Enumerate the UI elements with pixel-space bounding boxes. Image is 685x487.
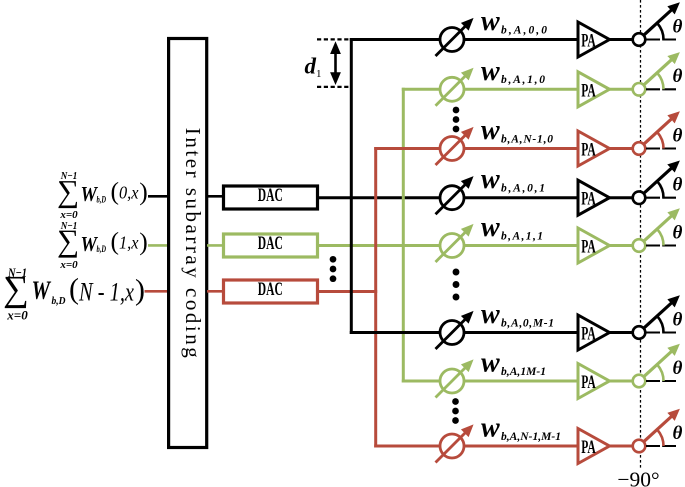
angle arc row 2 [657,73,663,89]
svg-text:θ: θ [673,175,683,196]
wire PA6 to antenna node 6 [610,331,634,334]
wire coder to DAC1 [207,195,224,198]
svg-text:W: W [32,276,52,305]
svg-text:PA: PA [581,325,596,345]
svg-text:(: ( [111,226,120,255]
svg-text:DAC: DAC [258,186,283,206]
phase shifter PS7 (green) [436,367,467,398]
svg-text:b,A,0,M-1: b,A,0,M-1 [501,317,554,329]
svg-text:PA: PA [581,438,596,458]
svg-text:θ: θ [673,309,683,330]
ellipsis dots rows 2-3 [453,107,460,133]
wire bus to phase shifter row 3 [374,147,441,150]
label w b,A,1,0 row 2 [481,56,545,87]
svg-text:PA: PA [581,32,596,52]
svg-text:PA: PA [581,238,596,258]
svg-text:b,A,0,1: b,A,0,1 [501,183,545,195]
label w b,A,0,M-1 row 6 [481,299,554,330]
angle arc row 6 [657,316,663,332]
svg-text:b,D: b,D [97,244,107,254]
svg-text:∑: ∑ [57,173,79,208]
node formula-2 digital weight term [57,220,148,271]
svg-text:W: W [81,182,99,206]
svg-text:): ) [139,227,148,256]
wire bus to phase shifter row 6 [350,331,441,334]
DAC3 (red) [224,280,318,303]
label w b,A,N-1,M-1 row 8 [481,413,561,444]
wire bus to phase shifter row 7 [402,380,441,383]
svg-text:w: w [481,413,500,444]
svg-text:∑: ∑ [3,268,29,308]
phase shifter PS2 (green) [436,75,467,106]
wire PS7 to PA7 [463,380,578,383]
svg-text:PA: PA [581,141,596,161]
antenna node 1 (black) [633,33,646,46]
amplifier PA7 (green) [578,364,610,399]
dashed spacing line top [317,38,350,40]
antenna node 4 (black) [633,191,646,204]
amplifier PA3 (red) [578,131,610,166]
reference line row 3 [646,147,676,149]
beam arrow row 3 [644,118,673,144]
svg-text:1: 1 [316,68,322,80]
double arrow d1 [330,41,341,85]
amplifier PA4 (black) [578,180,610,215]
phase shifter PS5 (green) [436,231,467,262]
amplifier PA8 (red) [578,429,610,464]
svg-text:b,A,N-1,0: b,A,N-1,0 [501,133,553,145]
node formula-3 digital weight term [3,265,145,323]
amplifier PA1 (black) [578,22,610,57]
antenna node 6 (black) [633,326,646,339]
svg-text:x=0: x=0 [6,308,28,323]
svg-text:W: W [81,232,99,256]
svg-text:DAC: DAC [258,234,283,254]
phase shifter PS6 (black) [436,318,467,349]
dashed spacing line bottom [317,86,350,88]
beam arrow row 4 [644,167,673,193]
svg-text:w: w [481,348,500,379]
wire coder to DAC3 [207,290,224,293]
ellipsis dots between DAC2 and DAC3 [330,256,337,282]
amplifier PA2 (green) [578,72,610,107]
svg-text:w: w [481,56,500,87]
wire coder to DAC2 [207,244,224,247]
block U1 inter subarray coding [169,39,207,448]
label w b,A,1,1 row 5 [481,212,543,243]
antenna node 3 (red) [633,142,646,155]
svg-text:θ: θ [673,222,683,243]
svg-text:(: ( [69,273,79,306]
wire bus to phase shifter row 1 [350,38,441,41]
wire PA8 to antenna node 8 [610,445,634,448]
svg-text:N - 1,x: N - 1,x [78,278,134,307]
svg-text:b,A,0,0: b,A,0,0 [501,24,547,36]
svg-text:(: ( [111,177,120,206]
svg-text:PA: PA [581,81,596,101]
svg-text:x=0: x=0 [59,259,78,271]
wire DAC3 output to red bus [316,290,377,293]
svg-text:0,x: 0,x [119,183,139,203]
reference line row 7 [646,380,676,382]
wire PA7 to antenna node 7 [610,380,634,383]
wire DAC2 output to bus and PS5 [316,244,441,247]
phase shifter PS1 (black) [436,25,467,56]
wire formula-2 to coder [148,244,167,247]
wire PA5 to antenna node 5 [610,244,634,247]
svg-text:1,x: 1,x [119,232,139,252]
wire PA2 to antenna node 2 [610,88,634,91]
wire green bus vertical [402,88,405,383]
svg-text:−90°: −90° [617,468,659,487]
label w b,A,0,1 row 4 [481,164,545,195]
svg-text:w: w [481,164,500,195]
wire PS3 to PA3 [463,147,578,150]
phase shifter PS8 (red) [436,432,467,463]
wire PS8 to PA8 [463,445,578,448]
svg-text:θ: θ [673,125,683,146]
svg-text:PA: PA [581,190,596,210]
label w b,A,0,0 row 1 [481,6,547,37]
angle arc row 3 [657,132,663,148]
angle arc row 4 [657,181,663,197]
svg-text:w: w [481,299,500,330]
wire PS4 to PA4 [463,196,578,199]
svg-text:b,A,1,0: b,A,1,0 [501,74,545,86]
reference line row 8 [646,445,676,447]
svg-text:b,A,1M-1: b,A,1M-1 [501,366,546,378]
reference line row 1 [646,38,676,40]
svg-text:PA: PA [581,373,596,393]
svg-text:θ: θ [673,358,683,379]
wire PA3 to antenna node 3 [610,147,634,150]
antenna node 2 (green) [633,83,646,96]
wire PS5 to PA5 [463,244,578,247]
beam arrow row 5 [644,215,673,241]
angle arc row 5 [657,229,663,245]
wire PS6 to PA6 [463,331,578,334]
reference line row 2 [646,88,676,90]
phase shifter PS3 (red) [436,134,467,165]
angle arc row 8 [657,430,663,446]
node formula-1 digital weight term [57,170,148,221]
svg-text:b,A,N-1,M-1: b,A,N-1,M-1 [501,431,561,443]
wire black bus vertical [350,38,353,334]
reference line row 5 [646,244,676,246]
antenna node 7 (green) [633,375,646,388]
wire PS2 to PA2 [463,88,578,91]
wire PA4 to antenna node 4 [610,196,634,199]
svg-text:θ: θ [673,66,683,87]
DAC1 (black) [224,186,318,209]
svg-text:∑: ∑ [57,223,79,258]
wire formula-3 to coder [145,290,168,293]
label w b,A,1M-1 row 7 [481,348,546,379]
ellipsis dots rows 5-6 [453,269,460,301]
wire red bus vertical [374,147,377,448]
svg-text:θ: θ [673,423,683,444]
svg-text:d: d [305,54,317,79]
wire formula-1 to coder [148,195,167,198]
DAC2 (green) [224,234,318,257]
phase shifter PS4 (black) [436,183,467,214]
svg-text:w: w [481,212,500,243]
svg-text:b,D: b,D [97,194,107,204]
svg-text:): ) [135,274,145,307]
svg-text:b,D: b,D [52,295,66,307]
wire DAC1 output to bus and PS4 [316,196,441,199]
svg-text:θ: θ [673,16,683,37]
svg-text:b,A,1,1: b,A,1,1 [501,230,543,242]
wire PS1 to PA1 [463,38,578,41]
svg-text:DAC: DAC [258,280,283,300]
beam arrow row 6 [644,302,673,328]
beam arrow row 1 [644,9,673,35]
wire bus to phase shifter row 8 [374,445,441,448]
svg-text:w: w [481,115,500,146]
antenna node 5 (green) [633,239,646,252]
antenna node 8 (red) [633,440,646,453]
amplifier PA6 (black) [578,315,610,350]
reference line row 4 [646,197,676,199]
angle arc row 1 [657,23,663,39]
wire PA1 to antenna node 1 [610,38,634,41]
array axis dashed vertical line [640,0,642,468]
angle arc row 7 [657,365,663,381]
label w b,A,N-1,0 row 3 [481,115,553,146]
svg-text:w: w [481,6,500,37]
amplifier PA5 (green) [578,228,610,263]
reference line row 6 [646,331,676,333]
beam arrow row 7 [644,351,673,377]
svg-text:): ) [139,177,148,206]
wire bus to phase shifter row 2 [402,88,441,91]
ellipsis dots rows 7-8 [452,398,459,424]
beam arrow row 8 [644,416,673,442]
beam arrow row 2 [644,59,673,85]
